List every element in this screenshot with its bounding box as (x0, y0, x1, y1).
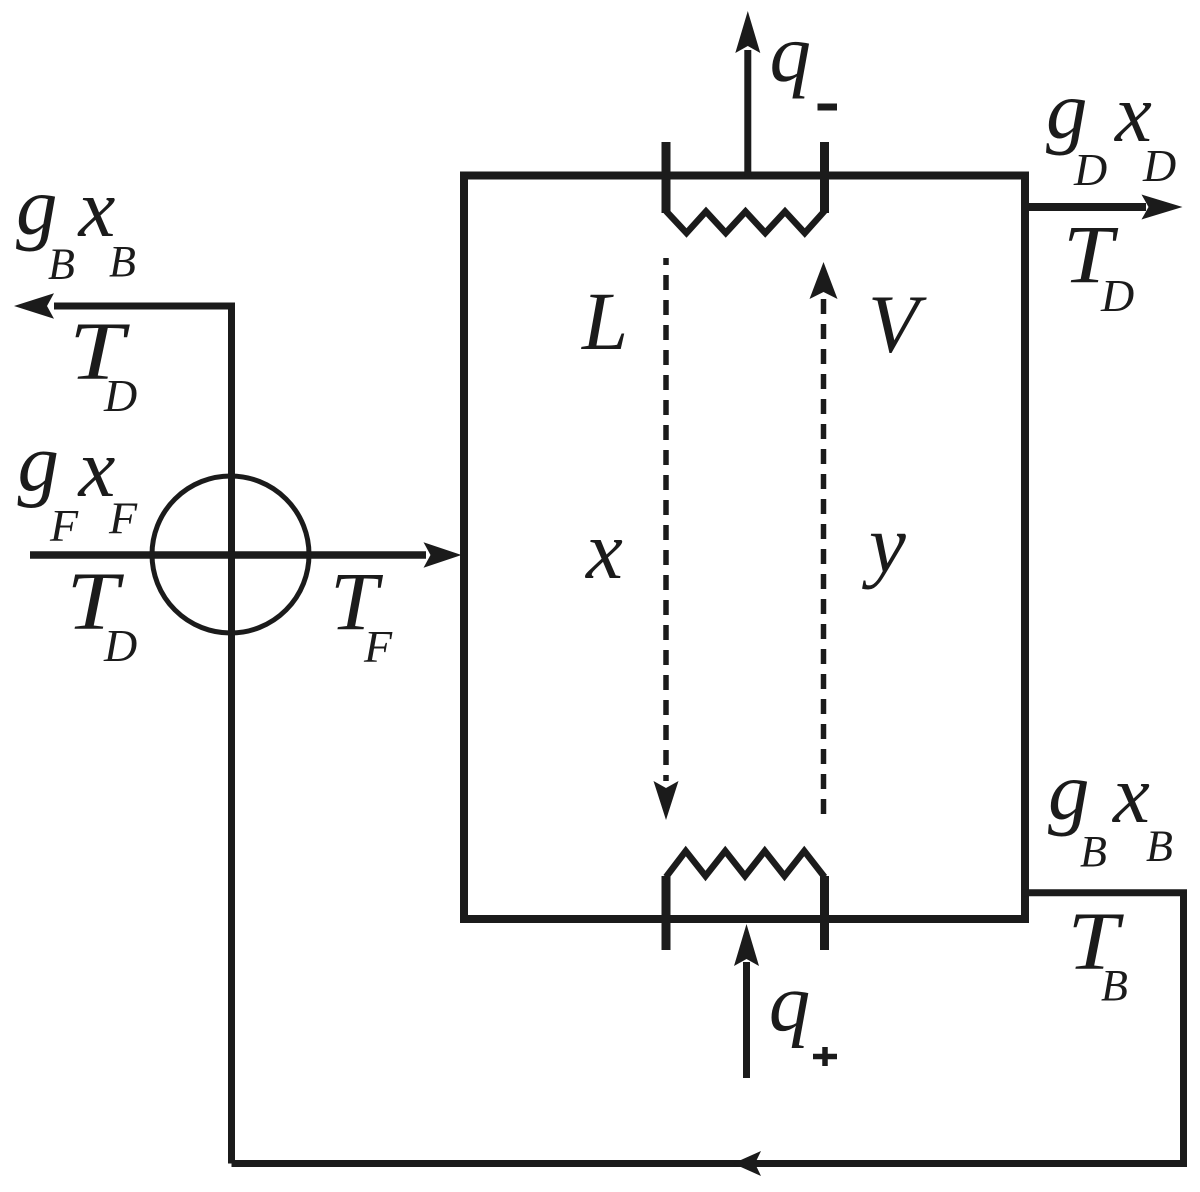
wire recycle bottom horizontal (232, 1160, 1188, 1167)
mixer M1 circle (152, 476, 309, 633)
svg-text:x: x (584, 504, 623, 596)
svg-text:x: x (1111, 748, 1150, 840)
dashed vapour stream V (up) (821, 299, 827, 822)
arrowhead q-out up (735, 11, 760, 53)
reboiler zigzag coil (666, 851, 825, 877)
svg-text:D: D (1100, 270, 1134, 321)
svg-text:y: y (862, 498, 906, 590)
svg-text:D: D (1073, 144, 1107, 195)
label plus subscript (813, 1047, 837, 1066)
svg-text:g: g (1048, 745, 1090, 837)
svg-text:B: B (1146, 822, 1173, 871)
condenser zigzag coil (666, 211, 825, 233)
arrowhead q-in up (734, 924, 759, 966)
svg-text:q: q (769, 957, 811, 1049)
svg-text:F: F (108, 493, 138, 544)
svg-text:B: B (1080, 827, 1107, 876)
wire distillate out (top right) (1022, 203, 1146, 211)
wire q-in vertical (bottom) (743, 962, 750, 1078)
reboiler right bar (820, 876, 829, 950)
svg-text:D: D (103, 370, 137, 421)
wire recycle right vertical (1180, 893, 1187, 1164)
dashed liquid stream L (down) (663, 258, 669, 781)
svg-text:B: B (48, 240, 75, 289)
label minus subscript (818, 104, 838, 111)
arrowhead L down (654, 781, 679, 820)
arrowhead V up (810, 262, 838, 299)
wire feed line (30, 551, 426, 559)
wire distillate return (top left horizontal) (54, 303, 235, 310)
condenser left bar (662, 142, 671, 213)
arrowhead feed right (424, 542, 462, 567)
svg-text:V: V (868, 278, 927, 370)
svg-text:B: B (109, 237, 136, 286)
wire mixer riser vertical (left) (228, 303, 235, 1164)
svg-text:g: g (18, 417, 60, 509)
svg-text:L: L (581, 275, 628, 367)
svg-text:F: F (49, 500, 79, 551)
reboiler left bar (662, 876, 671, 950)
svg-text:D: D (103, 620, 137, 671)
arrowhead distillate right (1142, 195, 1183, 220)
svg-text:F: F (363, 621, 393, 672)
condenser right bar (820, 142, 829, 213)
wire bottoms outlet (right, to recycle) (1022, 889, 1187, 896)
svg-text:D: D (1142, 140, 1176, 191)
svg-text:q: q (770, 7, 812, 99)
column vessel (rectangle) (464, 176, 1025, 920)
wire q-out vertical (744, 50, 751, 177)
arrowhead return left (14, 293, 54, 318)
svg-text:B: B (1101, 961, 1128, 1010)
svg-text:g: g (1046, 64, 1088, 156)
svg-text:g: g (16, 160, 58, 252)
arrowhead recycle left (mid-line) (733, 1151, 761, 1176)
